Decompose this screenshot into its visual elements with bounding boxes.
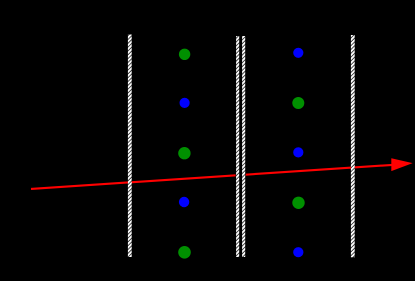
node: right column charge 3 (blue) <box>293 147 303 157</box>
node: left column charge 1 (green) <box>179 49 190 60</box>
wire: red particle trajectory line <box>31 164 400 189</box>
node: left column charge 4 (blue) <box>179 197 189 207</box>
grid plane 1 (hatched foil) <box>128 35 132 258</box>
node: right column charge 5 (blue) <box>293 247 303 257</box>
node: left column charge 5 (green) <box>178 246 191 259</box>
node: right column charge 4 (green) <box>292 197 304 209</box>
node: right column charge 1 (blue) <box>293 48 303 58</box>
node: right column charge 2 (green) <box>292 97 304 109</box>
grid plane 2 left (hatched foil) <box>236 36 246 257</box>
node: left column charge 3 (green) <box>178 147 190 159</box>
node: left column charge 2 (blue) <box>180 98 190 108</box>
grid plane 2 right (hatched foil) <box>242 36 245 257</box>
node arrowhead of trajectory <box>391 158 412 171</box>
grid plane 3 (hatched foil) <box>351 35 355 257</box>
